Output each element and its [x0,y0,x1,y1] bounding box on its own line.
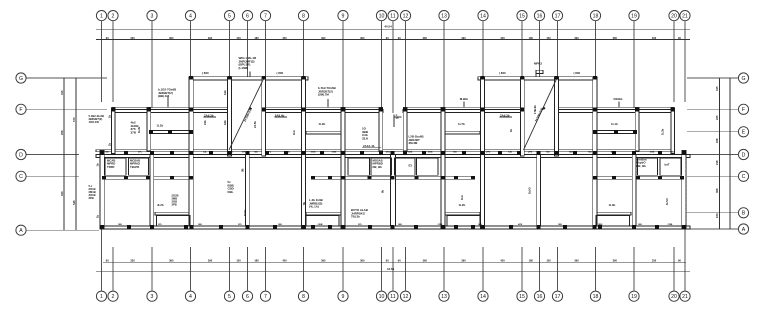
center party wall lower [391,155,396,227]
grid line 9 (top stem) [342,21,344,108]
svg-text:MB: MB [254,152,258,154]
grid bubble 21 (bottom) [680,291,690,301]
column at A/370 [368,225,372,229]
F beam upper chord left-2 [265,106,383,108]
D beam main [96,155,690,158]
expansion joint dashed line [685,157,687,226]
B beam right-1 [595,212,631,215]
row bubble G (right) [738,73,748,83]
svg-text:360: 360 [169,258,174,262]
svg-text:CBB: CBB [650,152,655,154]
svg-text:1Lb: 1Lb [460,195,464,200]
column at A/313 [311,225,315,229]
B beam left-2 [306,212,341,215]
svg-text:C: C [742,174,746,180]
column at C/148 [146,176,150,180]
svg-text:3PL: 3PL [242,152,247,154]
row leader B (right) [687,212,738,214]
F beam right-1 [558,110,675,113]
svg-text:573: 573 [72,117,76,122]
svg-text:390: 390 [208,258,213,262]
column at A/634 [632,225,636,229]
svg-text:330: 330 [130,36,135,40]
F beam left-2 [265,110,383,113]
svg-text:14: 14 [480,13,486,19]
column at C/172 [170,176,174,180]
stem under beam note left [167,96,169,107]
column at A/343 [341,225,345,229]
column at F/405 [403,108,407,112]
grid line 13 (bottom stem) [443,247,445,291]
wall grid-8 full height (mirrored) [481,77,485,228]
grid bubble 17 (bottom) [552,291,562,301]
grid bubble 14 (bottom) [478,291,488,301]
stair wall grid-7 (mirrored) [520,77,524,156]
svg-text:4: 4 [189,294,192,300]
svg-text:13: 13 [441,13,447,19]
svg-text:6: 6 [246,13,249,19]
svg-text:3B: 3B [241,169,245,172]
column at A/221 [219,225,223,229]
svg-text:N19bb: N19bb [614,97,623,101]
stair arrow left [248,106,252,110]
column at E/595 [593,130,597,134]
column at A/330 [328,225,332,229]
wall grid-9 [341,108,345,228]
svg-text:OBB: OBB [311,152,316,154]
svg-text:9: 9 [342,13,345,19]
svg-text:360: 360 [423,36,428,40]
A beam bottom wall [100,226,690,229]
grid bubble 4 (bottom) [185,291,195,301]
svg-text:baT: baT [665,163,670,167]
grid line 17 (bottom stem) [557,247,559,291]
column at G/304 [302,76,306,80]
grid bubble 20 (bottom) [669,291,679,301]
svg-text:450: 450 [500,36,505,40]
balcony box 1 [157,215,191,226]
column at D/152 [150,151,154,155]
svg-text:218: 218 [715,160,719,165]
balcony box 2 (mirrored) [447,215,480,226]
column at C/370 [368,176,372,180]
svg-text:5: 5 [228,13,231,19]
column at D/230 [228,151,232,155]
column at D/211 [209,151,213,155]
svg-text:450: 450 [282,36,287,40]
svg-text:16: 16 [537,13,543,19]
svg-text:180: 180 [529,36,534,40]
svg-text:1b5O: 1b5O [528,187,532,194]
column at D/464 [462,151,466,155]
column at G/482 [481,76,485,80]
grid bubble 10 (bottom) [376,291,386,301]
grid bubble 12 (bottom) [400,291,410,301]
svg-text:17: 17 [555,294,561,300]
svg-text:150: 150 [546,36,551,40]
stem under beam note M.9bb [463,102,465,108]
small room D-C 1 [105,158,126,175]
F beam upper chord right-2 [403,106,521,108]
column at A/248 [246,225,250,229]
stem under beam note N19bb [618,102,620,108]
svg-text:CBB: CBB [438,224,443,226]
column at C/313 [311,176,315,180]
column at A/102 [100,225,104,229]
svg-text:390: 390 [321,258,326,262]
row bubble A (right) [738,224,748,234]
wall grid-8 full height [302,77,306,228]
column at G/556 [555,76,559,80]
column at D/267 [265,151,269,155]
E beam right-2 [445,131,480,134]
column at F/191 [189,108,193,112]
grid line 3 (bottom stem) [151,247,153,291]
grid line 2 (bottom stem) [112,247,114,291]
column at D/660 [658,151,662,155]
grid bubble 12 (top) [400,11,410,21]
grid line 15 (top stem) [521,21,523,77]
row leader E (right) [687,131,738,133]
svg-text:390: 390 [574,36,579,40]
svg-text:180: 180 [254,258,259,262]
wall grid-3 lower (mirrored) [632,155,636,227]
grid bubble 3 (top) [147,11,157,21]
underline level label 3 [500,116,513,118]
column at D/304 [302,151,306,155]
column at D/556 [555,151,559,155]
small room D-C 1 (mirrored) [660,158,681,175]
wall grid-1 lower left end (mirrored) [682,151,686,229]
G beam raised section right [478,77,597,80]
wall grid-2 upper left end [112,108,115,154]
column at E/635 [633,130,637,134]
grid bubble 2 (top) [108,11,118,21]
column at C/660 [658,176,662,180]
stem under beam note mid-left [327,99,329,107]
grid bubble 11 (top) [388,11,398,21]
grid line 14 (top stem) [482,21,484,77]
column at D/362 [360,151,364,155]
row bubble G (left) [16,73,26,83]
column at C/191 [189,176,193,180]
F beam left-1 [112,110,229,113]
svg-text:MO2ABMPRBDDB_Bb: MO2ABMPRBDDB_Bb [373,159,383,169]
entrance step vertical [393,115,395,128]
svg-text:1L5O: 1L5O [665,198,669,205]
column at C/343 [341,176,345,180]
svg-text:390: 390 [461,258,466,262]
svg-text:44.54: 44.54 [384,24,392,28]
svg-text:CBB: CBB [668,224,673,226]
svg-text:CBB: CBB [332,152,337,154]
svg-text:( 830: ( 830 [499,71,506,75]
grid bubble 8 (bottom) [298,291,308,301]
column at G/264 [262,76,266,80]
row bubble C (right) [738,171,748,181]
grid line 12 (bottom stem) [405,247,407,291]
svg-text:1L7b: 1L7b [458,122,465,126]
grid line 14 (bottom stem) [482,247,484,291]
svg-text:OBB: OBB [318,224,323,226]
wall grid-4 full height [189,77,193,226]
svg-text:B: B [742,211,746,217]
svg-text:A: A [19,228,23,234]
column at A/275 [273,225,277,229]
grid line 4 (bottom stem) [190,247,192,291]
svg-text:bmsbmbhpbODB_Bb: bmsbmbhpbODB_Bb [637,158,647,168]
svg-text:1: 1 [100,294,103,300]
column at A/152 [150,225,154,229]
grid bubble 13 (top) [439,11,449,21]
column at C/126 [124,176,128,180]
column at F/482 [481,108,485,112]
svg-text:1: 1 [100,13,103,19]
grid line 21 (bottom stem) [684,230,686,292]
svg-text:450: 450 [282,258,287,262]
svg-text:CBB: CBB [408,152,413,154]
svg-text:390: 390 [574,258,579,262]
column at F/343 [341,108,345,112]
grid line 2 (top stem) [112,21,114,102]
row leader F (left) [26,108,107,110]
svg-text:12: 12 [403,294,409,300]
column at A/600 [598,225,602,229]
wall grid-10 upper [379,108,383,151]
column at D/482 [481,151,485,155]
svg-text:( 830: ( 830 [202,71,209,75]
svg-text:b1b: b1b [223,90,227,95]
grid line 4 (top stem) [190,21,192,77]
column at D/594 [593,151,597,155]
grid line 16 (top stem) [539,21,541,77]
grid bubble 8 (top) [298,11,308,21]
svg-text:1b: 1b [96,163,100,166]
grid bubble 11 (bottom) [388,291,398,301]
svg-text:2: 2 [112,13,115,19]
svg-text:330: 330 [60,191,64,196]
row leader F (right) [687,108,738,110]
underline level label above D [362,147,381,149]
dimension line left inner [63,78,65,230]
column at C/104 [102,176,106,180]
column at A/186 [184,225,188,229]
dimension line top overall [96,28,690,30]
row bubble E (right) [738,127,748,137]
stair arrow right [542,106,546,110]
grid line 7 (top stem) [265,21,267,77]
svg-text:24.5b: 24.5b [253,121,257,128]
flag symbol on G beam right [536,70,543,77]
grid line 10 (top stem) [381,21,383,150]
svg-text:C: C [19,174,23,180]
row bubble D (left) [16,149,26,159]
grid bubble 21 (top) [680,11,690,21]
grid line 13 (top stem) [443,21,445,108]
svg-text:bPB: bPB [518,224,523,226]
svg-text:18: 18 [593,294,599,300]
column at A/392 [391,225,395,229]
svg-text:14: 14 [480,294,486,300]
column at F/113 [111,108,115,112]
wall grid-9 (mirrored) [441,108,445,228]
column at C/473 [471,176,475,180]
column at G/230 [228,76,232,80]
svg-text:F: F [742,107,745,113]
svg-text:MB: MB [670,152,674,154]
svg-text:MPK3: MPK3 [534,62,542,66]
grid bubble 7 (bottom) [260,291,270,301]
column at G/191 [189,76,193,80]
dimension line left outer [75,78,77,230]
svg-text:3PL: 3PL [158,224,163,226]
svg-text:6b: 6b [381,190,385,193]
row leader D (right) [687,154,738,156]
leader from annotation block left [249,72,251,77]
column at C/638 [636,176,640,180]
svg-text:368: 368 [715,188,719,193]
B beam right-2 [445,212,480,215]
column at D/405 [403,151,407,155]
grid bubble 9 (top) [338,11,348,21]
small room D-C 3 (mirrored) [417,158,439,175]
grid bubble 20 (top) [669,11,679,21]
svg-text:360: 360 [613,258,618,262]
svg-text:24b: 24b [203,120,207,125]
svg-text:15: 15 [519,13,525,19]
stair wall grid-5 [228,77,232,156]
svg-text:20: 20 [671,13,677,19]
column at D/126 [124,151,128,155]
svg-text:7: 7 [264,294,267,300]
dimension line right outer [729,78,731,229]
grid line 8 (top stem) [303,21,305,77]
grid line 16 (bottom stem) [539,247,541,291]
svg-text:MO2ABMPR6OTBLPR: MO2ABMPR6OTBLPR [130,159,141,169]
grid line 17 (top stem) [557,21,559,77]
svg-text:DBb: DBb [611,152,616,154]
dimension line right inner [719,78,721,229]
svg-text:17: 17 [555,13,561,19]
column at G/595 [593,76,597,80]
svg-text:150: 150 [236,258,241,262]
svg-text:15: 15 [519,294,525,300]
F beam upper chord right-1 [558,106,675,108]
svg-text:JL2b: JL2b [157,203,164,207]
stair wall grid-5 (mirrored) [555,77,559,156]
svg-text:1BM: 1BM [598,224,603,226]
column at C/614 [612,176,616,180]
wall grid-2 upper left end (mirrored) [671,108,674,154]
wall grid-6 lower [246,155,250,227]
underline level label 1 [204,116,217,118]
column at C/392 [391,176,395,180]
column at D/443 [441,151,445,155]
column at D/172 [170,151,174,155]
svg-text:MB: MB [478,224,482,226]
svg-text:G: G [19,76,23,82]
column at D/392 [391,151,395,155]
column at C/595 [593,176,597,180]
svg-text:( 830: ( 830 [574,71,581,75]
svg-text:10: 10 [379,13,385,19]
grid line 8 (bottom stem) [303,247,305,291]
grid line 18 (top stem) [595,21,597,77]
dimension line top segments [96,38,690,40]
svg-text:390: 390 [321,36,326,40]
small room D-C 3 [348,158,370,175]
column at F/637 [635,108,639,112]
svg-text:MB: MB [278,224,282,226]
row leader A (right) [687,228,738,230]
column at F/522 [520,108,524,112]
column at D/322 [320,151,324,155]
entrance step horizontal [394,116,402,118]
grid bubble 16 (top) [534,11,544,21]
svg-text:18: 18 [593,13,599,19]
svg-text:6: 6 [246,294,249,300]
svg-text:1Lb: 1Lb [292,130,296,135]
svg-text:160: 160 [715,213,719,218]
column at A/456 [454,225,458,229]
column at A/192 [190,225,194,229]
grid line 19 (bottom stem) [633,247,635,291]
svg-text:HPb: HPb [267,152,272,154]
column at F/381 [379,108,383,112]
svg-text:G: G [741,76,745,82]
svg-text:8: 8 [302,294,305,300]
column at D/381 [379,151,383,155]
svg-text:3: 3 [151,13,154,19]
column at D/192 [190,151,194,155]
grid bubble 19 (bottom) [629,291,639,301]
svg-text:M.9bb: M.9bb [460,97,469,101]
svg-text:21: 21 [682,13,688,19]
grid bubble 2 (bottom) [108,291,118,301]
column at A/416 [414,225,418,229]
row bubble A (left) [16,225,26,235]
svg-text:360: 360 [169,36,174,40]
svg-text:MB: MB [398,224,402,226]
svg-text:11: 11 [390,294,395,300]
column at E/616 [614,130,618,134]
column at A/473 [471,225,475,229]
svg-text:11: 11 [390,13,395,19]
svg-text:D: D [19,152,23,158]
stair flight diagonal left [229,79,264,150]
svg-text:44.54: 44.54 [387,267,395,271]
svg-text:MB: MB [632,152,636,154]
stair flight diagonal right [524,79,557,150]
svg-text:1L1b: 1L1b [611,122,618,126]
svg-text:16: 16 [537,294,543,300]
wall grid-1 lower left end [100,151,104,229]
svg-text:OBB: OBB [428,152,433,154]
svg-text:MB: MB [170,152,174,154]
svg-text:1L3b: 1L3b [661,128,665,135]
svg-text:1L2b: 1L2b [319,122,326,126]
svg-text:225: 225 [715,115,719,120]
row bubble B (right) [738,208,748,218]
row bubble F (left) [16,104,26,114]
grid line 3 (top stem) [151,21,153,108]
row bubble F (right) [738,104,748,114]
grid bubble 18 (bottom) [590,291,600,301]
grid bubble 16 (bottom) [534,291,544,301]
E beam right-1 [595,131,637,134]
grid line 20 (bottom stem) [673,247,675,291]
svg-text:6b: 6b [302,202,306,205]
